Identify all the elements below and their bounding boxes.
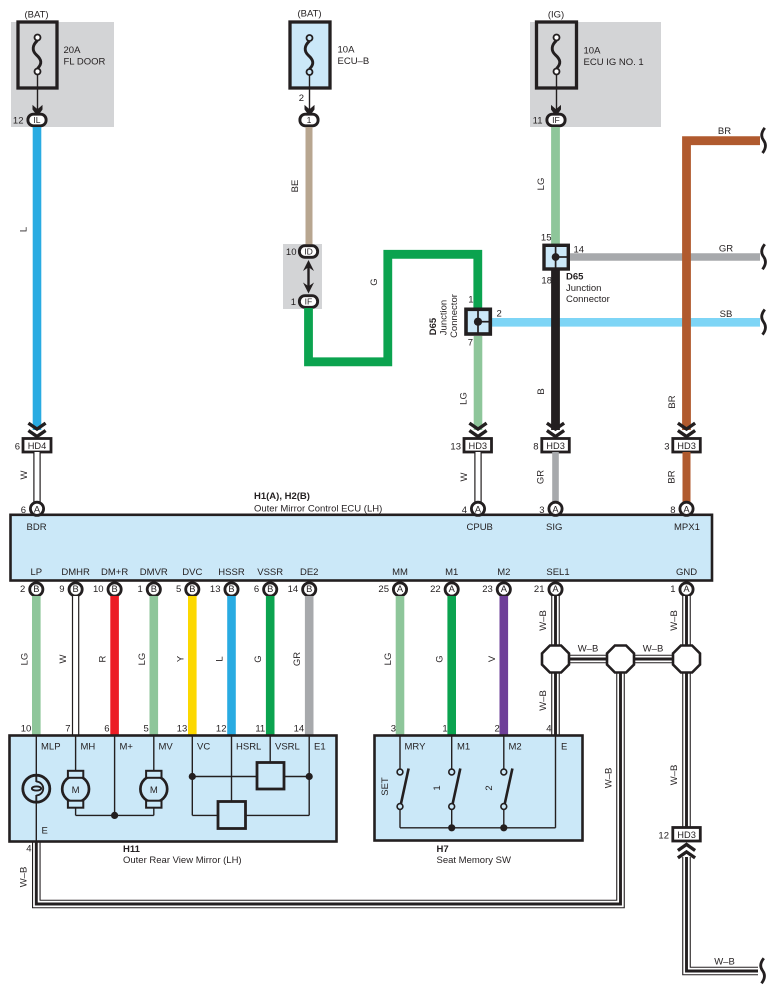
svg-text:MH: MH bbox=[81, 742, 96, 753]
svg-text:3: 3 bbox=[664, 442, 669, 453]
fuse 10A ECU IG NO.1 bbox=[537, 10, 644, 113]
ground junction node (right) bbox=[673, 646, 700, 673]
wire GR (gray) D65 pin14 with break bbox=[570, 244, 761, 258]
svg-text:H11: H11 bbox=[123, 844, 141, 855]
svg-text:Junction: Junction bbox=[566, 283, 601, 294]
svg-text:10: 10 bbox=[21, 724, 32, 735]
svg-text:20A: 20A bbox=[64, 45, 82, 56]
bottom pin 5 DVC bbox=[176, 583, 199, 596]
H11 internal wire MV bbox=[153, 736, 155, 772]
wire L HSSR to HSRL bbox=[215, 596, 232, 736]
svg-text:H7: H7 bbox=[437, 844, 449, 855]
svg-text:B: B bbox=[33, 584, 39, 594]
svg-text:8: 8 bbox=[533, 442, 538, 453]
bottom pin 1 DMVR bbox=[138, 583, 161, 596]
svg-text:1: 1 bbox=[138, 584, 143, 595]
wire W DMHR to MH bbox=[58, 596, 76, 736]
svg-text:SB: SB bbox=[720, 309, 733, 320]
connector oval ID pin 10 bbox=[286, 246, 318, 259]
svg-text:GR: GR bbox=[292, 652, 303, 666]
svg-text:6: 6 bbox=[15, 442, 20, 453]
svg-text:B: B bbox=[536, 388, 547, 394]
bottom pin 10 DM+R bbox=[93, 583, 121, 596]
svg-text:DM+R: DM+R bbox=[101, 567, 128, 578]
wire BR (brown) with break bbox=[667, 126, 760, 430]
svg-text:LG: LG bbox=[19, 653, 30, 666]
svg-text:1: 1 bbox=[468, 295, 473, 306]
svg-text:2: 2 bbox=[299, 93, 304, 104]
wire LG DMVR to MV bbox=[137, 596, 154, 736]
wire W-B right junction to HD3 bbox=[669, 672, 687, 828]
wire BR HD3 to MPX1 bbox=[667, 452, 687, 503]
svg-text:MRY: MRY bbox=[405, 742, 427, 753]
svg-text:1: 1 bbox=[442, 724, 447, 735]
wire LG (light green) fuse IF to D65 bbox=[536, 127, 556, 244]
relay block shading (FL DOOR fuse) bbox=[11, 22, 114, 127]
connector oval IF pin 11 bbox=[533, 114, 565, 126]
svg-text:MPX1: MPX1 bbox=[674, 522, 700, 533]
svg-text:DMHR: DMHR bbox=[61, 567, 90, 578]
bottom pin 1 GND bbox=[670, 583, 693, 596]
svg-text:A: A bbox=[449, 584, 456, 594]
svg-text:IL: IL bbox=[33, 115, 40, 125]
arrow into IL bbox=[33, 105, 43, 117]
svg-text:VSRL: VSRL bbox=[275, 742, 300, 753]
svg-text:CPUB: CPUB bbox=[467, 522, 493, 533]
svg-text:V: V bbox=[487, 655, 498, 662]
svg-text:W–B: W–B bbox=[578, 644, 599, 655]
svg-text:A: A bbox=[501, 584, 508, 594]
svg-text:A: A bbox=[683, 584, 690, 594]
chevron arrow up into HD3 bbox=[678, 845, 695, 858]
svg-text:D65: D65 bbox=[566, 272, 584, 283]
svg-text:ECU IG NO. 1: ECU IG NO. 1 bbox=[584, 57, 644, 68]
H11 internal wire MLP/E bbox=[35, 736, 37, 842]
svg-text:7: 7 bbox=[65, 724, 70, 735]
switch 2 bbox=[484, 736, 512, 828]
bottom pin 14 DE2 bbox=[288, 583, 316, 596]
wire LG LP to MLP bbox=[19, 596, 36, 736]
svg-text:FL DOOR: FL DOOR bbox=[64, 57, 106, 68]
svg-text:GR: GR bbox=[719, 244, 733, 255]
svg-text:W: W bbox=[459, 472, 470, 481]
connector HD3 pin 3 bbox=[664, 439, 700, 453]
svg-text:1: 1 bbox=[307, 115, 312, 125]
wire W-B left junction to H7 E bbox=[538, 672, 556, 736]
wire W-B junction to junction (right) bbox=[632, 644, 675, 660]
H11 motor common wire bbox=[76, 814, 154, 816]
wire GR DE2 to E1 bbox=[292, 596, 309, 736]
wire W (white) HD4 to BDR bbox=[19, 452, 37, 503]
connector oval 1 bbox=[300, 114, 318, 126]
svg-text:(BAT): (BAT) bbox=[24, 10, 48, 21]
svg-text:R: R bbox=[98, 655, 109, 662]
svg-text:25: 25 bbox=[378, 584, 389, 595]
svg-text:ID: ID bbox=[304, 247, 313, 257]
actuator block (HSRL) bbox=[218, 802, 246, 829]
svg-text:8: 8 bbox=[670, 505, 675, 516]
wire G VSSR to VSRL bbox=[253, 596, 270, 736]
svg-text:B: B bbox=[228, 584, 234, 594]
svg-text:E: E bbox=[561, 742, 567, 753]
svg-text:BDR: BDR bbox=[27, 522, 47, 533]
ground junction node (left) bbox=[542, 646, 569, 673]
wire V M2 bbox=[487, 596, 504, 736]
svg-text:Junction: Junction bbox=[438, 300, 449, 335]
ground junction node (middle) bbox=[607, 646, 634, 673]
arrow into IF bbox=[551, 105, 561, 117]
svg-text:MLP: MLP bbox=[41, 742, 61, 753]
chevron arrow into HD3 (13) bbox=[469, 423, 486, 436]
H11 internal wire M+ bbox=[111, 736, 118, 819]
double arrow ID to IF bbox=[303, 260, 314, 294]
connector HD4 pin 6 bbox=[15, 439, 51, 453]
arrow into oval 1 bbox=[305, 105, 315, 117]
H11 internal wire HSRL bbox=[231, 736, 233, 802]
svg-text:W–B: W–B bbox=[538, 690, 549, 711]
bottom pin 13 HSSR bbox=[210, 583, 238, 596]
wire W-B HD3 to break bbox=[687, 857, 759, 971]
svg-text:11: 11 bbox=[533, 116, 543, 127]
svg-text:Outer Mirror Control ECU (LH): Outer Mirror Control ECU (LH) bbox=[254, 504, 382, 515]
svg-text:HD3: HD3 bbox=[546, 441, 565, 451]
svg-text:M: M bbox=[150, 785, 158, 796]
svg-text:5: 5 bbox=[144, 724, 149, 735]
svg-text:LG: LG bbox=[137, 653, 148, 666]
svg-text:B: B bbox=[111, 584, 117, 594]
svg-text:6: 6 bbox=[254, 584, 259, 595]
svg-text:D65: D65 bbox=[428, 317, 439, 335]
svg-text:W–B: W–B bbox=[19, 867, 30, 888]
svg-text:B: B bbox=[306, 584, 312, 594]
wire W-B middle junction down to bottom run bbox=[19, 672, 621, 904]
bottom pin 6 VSSR bbox=[254, 583, 277, 596]
svg-text:6: 6 bbox=[104, 724, 109, 735]
junction connector D65 (middle, pins 1/2/7) bbox=[428, 294, 502, 348]
svg-text:M2: M2 bbox=[497, 567, 510, 578]
relay block shading (ID/IF junction) bbox=[283, 244, 322, 309]
wire W HD3 to CPUB bbox=[459, 452, 478, 503]
bottom pin 9 DMHR bbox=[59, 583, 82, 596]
svg-text:HSSR: HSSR bbox=[218, 567, 245, 578]
junction connector D65 (upper, pins 15/14/18) bbox=[541, 233, 610, 306]
wire W-B GND to junction bbox=[669, 596, 687, 646]
bottom pin 22 M1 bbox=[430, 583, 458, 596]
svg-text:A: A bbox=[397, 584, 404, 594]
svg-text:E: E bbox=[42, 826, 48, 837]
break symbol GR bbox=[762, 244, 766, 269]
svg-text:VSSR: VSSR bbox=[257, 567, 283, 578]
svg-text:W: W bbox=[19, 470, 30, 479]
svg-text:W–B: W–B bbox=[669, 610, 680, 631]
fuse 10A ECU-B bbox=[290, 9, 369, 113]
svg-text:G: G bbox=[435, 655, 446, 662]
svg-text:10A: 10A bbox=[584, 46, 602, 57]
svg-text:13: 13 bbox=[450, 442, 461, 453]
wire SB (sky blue) D65 pin2 with break bbox=[492, 309, 760, 322]
svg-text:3: 3 bbox=[539, 505, 544, 516]
svg-text:6: 6 bbox=[21, 505, 26, 516]
wire GR HD3 to SIG bbox=[536, 452, 556, 503]
svg-text:W–B: W–B bbox=[538, 610, 549, 631]
svg-text:3: 3 bbox=[391, 724, 396, 735]
svg-text:10A: 10A bbox=[338, 45, 356, 56]
svg-text:BR: BR bbox=[667, 395, 678, 408]
bottom pin 25 MM bbox=[378, 583, 406, 596]
mirror heater motor M (MH) bbox=[62, 771, 89, 816]
svg-text:BE: BE bbox=[290, 180, 301, 193]
svg-text:DMVR: DMVR bbox=[140, 567, 168, 578]
mirror assembly H11 Outer Rear View Mirror (LH) bbox=[10, 736, 337, 867]
svg-text:LP: LP bbox=[30, 567, 42, 578]
svg-text:1: 1 bbox=[432, 785, 443, 790]
svg-text:M1: M1 bbox=[445, 567, 458, 578]
pin 8 MPX1 bbox=[670, 502, 693, 516]
svg-text:14: 14 bbox=[574, 245, 585, 256]
svg-text:SET: SET bbox=[380, 777, 391, 796]
svg-text:GND: GND bbox=[676, 567, 697, 578]
svg-text:M: M bbox=[72, 785, 80, 796]
wire B (black) D65 pin18 down bbox=[536, 270, 556, 430]
svg-text:HD3: HD3 bbox=[677, 830, 696, 840]
svg-text:HD4: HD4 bbox=[28, 441, 47, 451]
connector oval IL pin 12 bbox=[13, 114, 46, 126]
svg-text:E1: E1 bbox=[314, 742, 326, 753]
svg-text:11: 11 bbox=[255, 724, 265, 735]
svg-text:14: 14 bbox=[288, 584, 299, 595]
svg-text:VC: VC bbox=[197, 742, 210, 753]
ECU H1/H2 Outer Mirror Control ECU (LH) bbox=[11, 491, 713, 581]
pin 3 SIG bbox=[539, 502, 562, 516]
H11 internal wire VSRL bbox=[269, 736, 271, 763]
svg-text:LG: LG bbox=[459, 392, 470, 405]
connector HD3 pin 8 bbox=[533, 439, 569, 453]
connector HD3 pin 13 bbox=[450, 439, 491, 453]
break symbol BR bbox=[762, 128, 766, 153]
svg-text:IF: IF bbox=[552, 115, 560, 125]
wire BE (beige) oval 1 to ID bbox=[290, 127, 309, 245]
svg-text:L: L bbox=[215, 656, 226, 661]
svg-text:2: 2 bbox=[497, 309, 502, 320]
svg-text:(IG): (IG) bbox=[548, 10, 564, 21]
svg-text:B: B bbox=[72, 584, 78, 594]
svg-text:A: A bbox=[34, 505, 41, 515]
svg-text:9: 9 bbox=[59, 584, 64, 595]
svg-text:W–B: W–B bbox=[714, 957, 735, 968]
svg-text:10: 10 bbox=[93, 584, 104, 595]
svg-text:BR: BR bbox=[718, 126, 731, 137]
actuator block (VSRL) bbox=[257, 763, 284, 790]
bottom pin 2 LP bbox=[20, 583, 43, 596]
svg-text:2: 2 bbox=[495, 724, 500, 735]
puddle lamp symbol bbox=[23, 775, 50, 803]
svg-text:1: 1 bbox=[670, 584, 675, 595]
svg-text:5: 5 bbox=[176, 584, 181, 595]
svg-text:HSRL: HSRL bbox=[236, 742, 261, 753]
svg-text:G: G bbox=[253, 655, 264, 662]
wire G (green) IF to D65 junction bbox=[309, 254, 478, 361]
bottom pin 21 SEL1 bbox=[534, 583, 562, 596]
svg-text:B: B bbox=[189, 584, 195, 594]
fuse 20A FL DOOR bbox=[18, 10, 106, 113]
svg-text:22: 22 bbox=[430, 584, 441, 595]
connector oval IF pin 1 bbox=[291, 296, 318, 309]
svg-text:MV: MV bbox=[159, 742, 174, 753]
svg-text:G: G bbox=[369, 278, 380, 285]
svg-text:7: 7 bbox=[468, 338, 473, 349]
svg-text:A: A bbox=[552, 505, 559, 515]
switch assembly H7 Seat Memory SW bbox=[375, 736, 583, 867]
H7 common bus bbox=[400, 736, 556, 831]
wire G M1 bbox=[435, 596, 452, 736]
svg-text:13: 13 bbox=[210, 584, 221, 595]
switch 1 bbox=[432, 736, 460, 828]
svg-text:12: 12 bbox=[216, 724, 227, 735]
wire W-B SEL1 to junction bbox=[538, 596, 556, 646]
svg-text:B: B bbox=[151, 584, 157, 594]
svg-text:BR: BR bbox=[667, 470, 678, 483]
svg-text:ECU–B: ECU–B bbox=[338, 56, 370, 67]
svg-text:2: 2 bbox=[484, 785, 495, 790]
svg-text:LG: LG bbox=[536, 178, 547, 191]
svg-text:Y: Y bbox=[175, 655, 186, 662]
break symbol W-B bbox=[761, 958, 765, 983]
svg-text:SEL1: SEL1 bbox=[546, 567, 569, 578]
svg-text:2: 2 bbox=[20, 584, 25, 595]
svg-text:W–B: W–B bbox=[643, 644, 664, 655]
chevron arrow into HD3 (8) bbox=[547, 423, 564, 436]
relay block shading (ECU IG NO.1 fuse) bbox=[530, 22, 661, 127]
svg-text:DE2: DE2 bbox=[300, 567, 318, 578]
svg-text:(BAT): (BAT) bbox=[297, 9, 321, 20]
svg-text:M+: M+ bbox=[120, 742, 134, 753]
svg-text:Outer Rear View Mirror (LH): Outer Rear View Mirror (LH) bbox=[123, 855, 242, 866]
switch SET bbox=[380, 736, 409, 828]
wire L (blue) fuse IL to HD4 bbox=[19, 127, 38, 430]
wire W-B junction to junction (left) bbox=[567, 644, 609, 660]
wire Y DVC to VC bbox=[175, 596, 192, 736]
svg-text:4: 4 bbox=[26, 844, 31, 855]
svg-text:Connector: Connector bbox=[566, 294, 610, 305]
svg-text:1: 1 bbox=[291, 297, 296, 308]
svg-text:SIG: SIG bbox=[546, 522, 562, 533]
svg-text:HD3: HD3 bbox=[468, 441, 487, 451]
svg-text:MM: MM bbox=[392, 567, 408, 578]
H11 internal wire VC bbox=[189, 736, 257, 815]
wire LG D65 pin7 to HD3 bbox=[459, 336, 479, 430]
bottom pin 23 M2 bbox=[482, 583, 510, 596]
svg-text:A: A bbox=[552, 584, 559, 594]
svg-text:W: W bbox=[58, 654, 69, 663]
svg-text:10: 10 bbox=[286, 247, 297, 258]
break symbol SB bbox=[762, 310, 766, 335]
svg-text:W–B: W–B bbox=[604, 768, 615, 789]
svg-text:IF: IF bbox=[305, 297, 313, 307]
H11 internal wire E1 bbox=[246, 736, 313, 815]
H11 internal wire MH bbox=[75, 736, 77, 772]
svg-text:Connector: Connector bbox=[449, 294, 460, 338]
pin 6 BDR bbox=[21, 502, 44, 516]
svg-text:4: 4 bbox=[462, 505, 467, 516]
svg-text:B: B bbox=[267, 584, 273, 594]
svg-text:M1: M1 bbox=[457, 742, 470, 753]
svg-text:H1(A), H2(B): H1(A), H2(B) bbox=[254, 491, 310, 502]
wire R DM+R to M+ bbox=[98, 596, 115, 736]
svg-text:18: 18 bbox=[541, 276, 552, 287]
svg-text:23: 23 bbox=[482, 584, 493, 595]
mirror vertical motor M (MV) bbox=[140, 771, 167, 816]
wire LG MM to MRY bbox=[383, 596, 400, 736]
svg-text:A: A bbox=[475, 505, 482, 515]
svg-text:13: 13 bbox=[177, 724, 188, 735]
connector HD3 pin 12 (bottom right) bbox=[658, 828, 700, 842]
svg-text:Seat Memory SW: Seat Memory SW bbox=[437, 855, 511, 866]
svg-text:14: 14 bbox=[294, 724, 305, 735]
svg-text:A: A bbox=[683, 505, 690, 515]
svg-text:12: 12 bbox=[658, 831, 669, 842]
svg-text:LG: LG bbox=[383, 653, 394, 666]
svg-text:4: 4 bbox=[546, 724, 551, 735]
svg-text:L: L bbox=[19, 227, 30, 232]
svg-text:15: 15 bbox=[541, 233, 552, 244]
svg-text:M2: M2 bbox=[509, 742, 522, 753]
chevron arrow into HD3 (3) bbox=[678, 423, 695, 436]
pin 4 CPUB bbox=[462, 502, 485, 516]
svg-text:HD3: HD3 bbox=[677, 441, 696, 451]
svg-text:DVC: DVC bbox=[182, 567, 202, 578]
svg-text:W–B: W–B bbox=[669, 765, 680, 786]
svg-text:21: 21 bbox=[534, 584, 545, 595]
chevron arrow into HD4 bbox=[28, 423, 45, 436]
svg-text:GR: GR bbox=[536, 470, 547, 484]
svg-text:12: 12 bbox=[13, 116, 24, 127]
